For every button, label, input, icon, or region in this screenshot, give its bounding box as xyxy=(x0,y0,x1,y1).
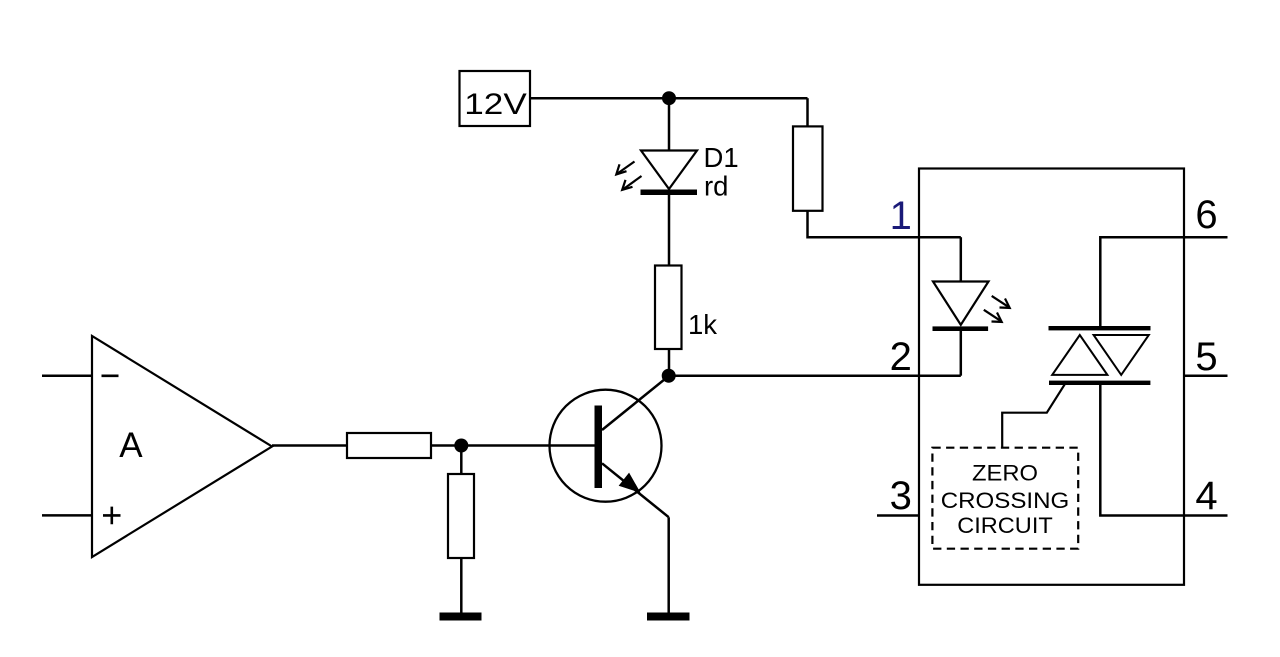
wire triac top to pin 6 xyxy=(1100,237,1227,326)
node 12V junction xyxy=(662,91,676,105)
resistor 1k xyxy=(655,266,682,350)
wire triac gate xyxy=(1002,383,1065,447)
resistor R-base (horizontal) xyxy=(347,433,431,458)
svg-text:2: 2 xyxy=(890,335,912,379)
ground right xyxy=(647,613,690,621)
svg-text:1: 1 xyxy=(890,194,912,238)
wire resistor to base node xyxy=(431,444,595,447)
triac top bar xyxy=(1049,326,1151,330)
svg-text:A: A xyxy=(119,426,143,465)
triac bottom bar xyxy=(1049,381,1150,385)
svg-text:3: 3 xyxy=(890,474,912,518)
resistor R-limit (top right vertical) xyxy=(806,98,809,126)
svg-text:ZERO: ZERO xyxy=(972,460,1038,485)
wire op-amp output xyxy=(272,444,347,447)
wire junction to LED D1 xyxy=(668,98,671,150)
node collector junction xyxy=(662,369,676,383)
svg-text:6: 6 xyxy=(1195,193,1217,237)
opto LED emission arrow 1 xyxy=(992,296,1010,308)
op-amp plus sign xyxy=(103,507,121,525)
svg-text:1k: 1k xyxy=(688,309,717,340)
transistor Q1 xyxy=(550,376,669,517)
wire pin 3 stub xyxy=(877,514,919,517)
wire D1 to 1k xyxy=(668,195,671,266)
node base junction xyxy=(454,439,468,453)
wire node to pin 2 xyxy=(669,374,961,377)
svg-text:CIRCUIT: CIRCUIT xyxy=(957,513,1053,538)
LED D1 emission arrow 2 xyxy=(622,176,641,190)
svg-text:CROSSING: CROSSING xyxy=(941,488,1070,513)
svg-text:D1: D1 xyxy=(704,142,739,173)
power source 12V box xyxy=(460,71,531,126)
optocoupler U1 box xyxy=(919,169,1184,585)
wire resistor to pin 1 xyxy=(808,211,961,237)
wire node to pulldown resistor xyxy=(460,446,463,475)
op-amp A xyxy=(92,336,272,557)
wire non-inverting input xyxy=(42,514,92,517)
wire pin 5 stub xyxy=(1184,374,1228,377)
triac right triangle xyxy=(1094,335,1149,375)
wire 1k to collector node xyxy=(668,349,671,376)
svg-text:5: 5 xyxy=(1195,335,1217,379)
zero crossing circuit box xyxy=(932,448,1078,549)
ground left xyxy=(440,613,482,621)
wire opto LED cathode down xyxy=(960,331,963,376)
opto LED emission arrow 2 xyxy=(984,310,1002,322)
svg-text:rd: rd xyxy=(704,170,728,201)
wire triac bottom to pin 4 xyxy=(1100,385,1227,516)
resistor pulldown (vertical) xyxy=(448,474,474,558)
wire pulldown to ground xyxy=(460,558,463,613)
triac left triangle xyxy=(1052,335,1107,375)
LED D1 emission arrow 1 xyxy=(616,162,634,175)
LED D1 xyxy=(641,151,698,196)
op-amp minus sign xyxy=(102,374,119,377)
svg-text:4: 4 xyxy=(1195,474,1217,518)
wire inverting input xyxy=(42,375,92,378)
wire pin1 down to opto LED xyxy=(960,237,963,281)
opto LED xyxy=(933,282,989,332)
svg-text:12V: 12V xyxy=(464,88,527,121)
wire emitter to ground xyxy=(667,517,670,613)
wire 12V rail xyxy=(530,97,808,100)
